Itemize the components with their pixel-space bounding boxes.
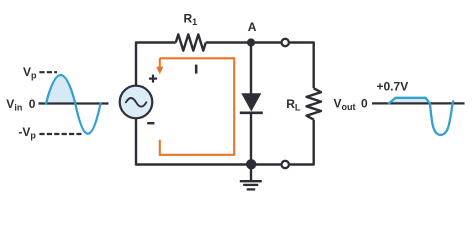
- source + polarity: [149, 77, 157, 79]
- input waveform axis (Vin): [39, 102, 109, 104]
- diode D1 wire (anode): [250, 43, 252, 95]
- source - polarity: [147, 122, 154, 124]
- svg-text:R1: R1: [184, 12, 198, 28]
- current loop top/right/bottom/left: [160, 58, 234, 155]
- wire: node A to top terminal: [251, 41, 281, 43]
- svg-text:Vout: Vout: [334, 97, 356, 113]
- ground stem: [250, 165, 252, 182]
- bottom junction dot: [246, 159, 256, 169]
- diode D1 wire (cathode): [250, 113, 252, 165]
- node A junction dot: [247, 38, 255, 46]
- input sine positive half fill: [46, 75, 75, 104]
- diode D1 triangle: [241, 93, 261, 111]
- Vp dashed level line: [39, 71, 57, 73]
- svg-text:0: 0: [361, 97, 368, 111]
- output waveform axis (Vout): [372, 102, 465, 104]
- wire: bottom rail to source: [136, 118, 251, 165]
- AC source sine symbol: [126, 98, 146, 107]
- svg-text:Vin: Vin: [6, 97, 22, 113]
- bottom output terminal: [282, 161, 289, 168]
- -Vp dashed level line: [39, 133, 81, 135]
- svg-text:-Vp: -Vp: [18, 125, 36, 141]
- ground bar 2: [243, 184, 258, 186]
- diode D1 cathode bar: [240, 111, 263, 114]
- output waveform: [389, 98, 453, 135]
- AC source V1: [120, 86, 153, 119]
- svg-text:+0.7V: +0.7V: [377, 79, 409, 93]
- resistor R1: [176, 34, 206, 50]
- wire: top terminal to RL branch: [290, 43, 314, 89]
- wire: R1 to node A: [206, 41, 251, 43]
- output clipped region fill: [389, 98, 430, 104]
- current loop arrowhead: [156, 67, 163, 75]
- top output terminal: [282, 39, 289, 46]
- wire: top rail left segment: [136, 43, 176, 87]
- svg-text:RL: RL: [286, 97, 301, 113]
- wire: bottom terminal to ground junction: [251, 163, 281, 165]
- svg-text:Vp: Vp: [23, 65, 37, 81]
- wire: RL to bottom terminal: [290, 120, 314, 165]
- ground bar 3: [247, 188, 256, 190]
- ground bar 1: [240, 180, 262, 182]
- input sine wave: [46, 75, 101, 134]
- svg-text:0: 0: [29, 97, 36, 111]
- label I: [195, 65, 198, 74]
- resistor RL: [307, 88, 322, 119]
- current loop arrow: [159, 58, 161, 68]
- svg-text:A: A: [248, 20, 257, 34]
